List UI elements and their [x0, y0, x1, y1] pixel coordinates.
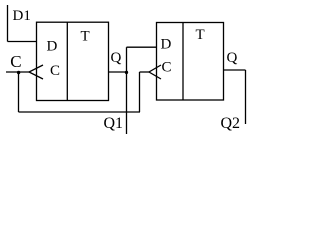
wire D1 vertical — [7, 5, 9, 42]
svg-text:Q2: Q2 — [221, 115, 241, 132]
wire D1 to U1 D input — [8, 41, 37, 43]
wire node Q2 drop — [245, 70, 247, 124]
U2 divider — [182, 23, 184, 101]
svg-text:C: C — [162, 60, 172, 76]
svg-text:D: D — [161, 37, 172, 53]
wire to U2 clock input — [140, 71, 150, 73]
wire riser to U2 clock — [139, 72, 141, 112]
wire node Q1 riser — [126, 47, 128, 134]
svg-text:T: T — [81, 29, 90, 45]
svg-text:T: T — [196, 27, 205, 43]
svg-text:Q: Q — [111, 50, 122, 66]
wire node C down — [18, 72, 20, 112]
svg-text:D: D — [47, 39, 58, 55]
flip-flop U2 body — [157, 23, 224, 101]
svg-text:Q: Q — [227, 50, 238, 66]
U1 clock edge symbol — [29, 65, 43, 79]
wire Q1 to U2 D input — [127, 46, 157, 48]
U2 clock edge symbol — [149, 65, 161, 79]
wire bottom clock run — [19, 111, 141, 113]
wire C input — [6, 71, 29, 73]
flip-flop U1 body — [37, 22, 109, 100]
svg-text:Q1: Q1 — [104, 115, 124, 132]
junction C node — [17, 71, 20, 74]
svg-text:D1: D1 — [13, 8, 31, 24]
junction Q1 node — [125, 71, 128, 74]
svg-text:C: C — [10, 52, 21, 71]
wire U2 Q output — [224, 69, 246, 71]
svg-text:C: C — [50, 63, 60, 79]
wire U1 Q output — [109, 71, 127, 73]
U1 divider — [66, 22, 68, 100]
